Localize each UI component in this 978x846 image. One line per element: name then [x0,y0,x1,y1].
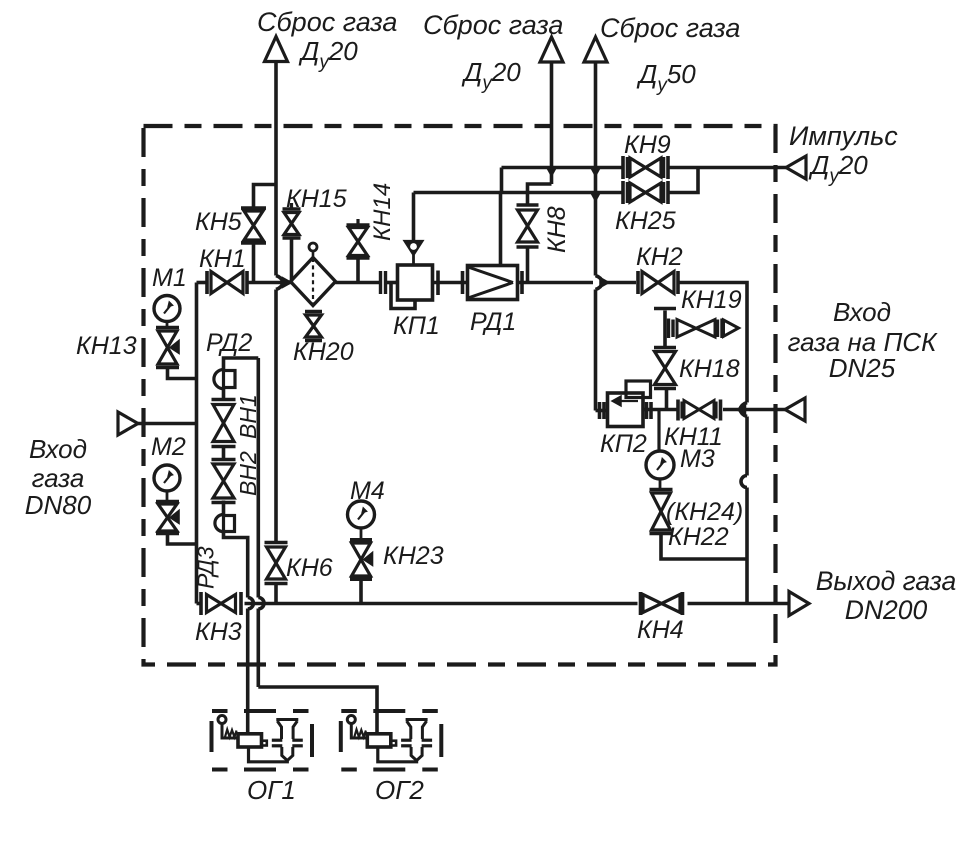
flow arrow riser 3 at impulse line [591,167,601,176]
wire: КН15 stem to filter inlet [290,239,294,282]
burner unit ОГ2 internals [347,711,432,762]
hop on right column [741,476,747,488]
svg-text:КН25: КН25 [615,207,676,235]
valve М2 gauge cock [156,502,179,534]
label КН9 [624,131,671,159]
label КН1 [199,245,246,273]
valve КН2 [638,271,678,294]
label ВН2 (rotated) [235,451,261,496]
wire: ВН2-РД3 stem [222,501,226,516]
gauge М4 [348,501,375,539]
svg-text:КН1: КН1 [199,245,246,273]
svg-text:Выход газа: Выход газа [816,566,957,596]
gas inlet port DN80 [118,412,138,435]
valve КН15 [283,203,301,238]
label КН18 [679,355,740,383]
flow arrow at right column junction [737,403,748,417]
svg-text:DN200: DN200 [845,595,928,625]
wire: left riser x=196.5 [197,283,202,604]
wire: РД3 outlet to ОГ1 column [224,532,248,598]
label Сброс газа Ду50 [600,13,740,96]
wire: КН6 bottom stem [274,584,278,604]
wire: discharge riser 2 (x=551.5) with jog to КН8 stem [528,63,552,193]
svg-text:М4: М4 [350,477,385,505]
svg-text:DN80: DN80 [25,490,92,520]
svg-text:КН13: КН13 [76,332,137,360]
label Вход газа DN80 [25,434,92,520]
discharge port 2 (Сброс газа Ду20 middle) [540,37,563,62]
label КН11 [664,423,723,451]
svg-text:РД2: РД2 [206,329,252,357]
svg-text:Сброс газа: Сброс газа [600,13,740,43]
wire: discharge riser 1 (x=276) [276,62,283,543]
svg-text:КП1: КП1 [393,312,440,340]
pilot regulator РД3 (head) [215,515,235,532]
svg-text:ОГ2: ОГ2 [375,775,424,805]
svg-text:КН15: КН15 [286,185,347,213]
filter Ф1 (diamond with dashed axis and cap) [291,243,336,309]
valve КН9 [623,156,668,179]
flow arrow riser 2 into impulse line [547,167,557,176]
label КП1 [393,312,440,340]
svg-text:КН6: КН6 [286,554,333,582]
wire: main pipe КН1-filter [249,281,291,285]
svg-text:КН18: КН18 [679,355,740,383]
label КН15 [286,185,347,213]
valve КН6 [265,543,288,584]
label Импульс Ду20 [789,121,898,187]
svg-text:М3: М3 [680,445,715,473]
svg-text:газа: газа [32,463,85,493]
svg-text:М1: М1 [152,264,187,292]
svg-text:КН2: КН2 [636,243,683,271]
svg-text:КН20: КН20 [293,338,354,366]
svg-text:КН4: КН4 [637,616,684,644]
svg-text:Вход: Вход [29,434,87,464]
svg-text:РД1: РД1 [470,308,516,336]
valve КН20 (filter drain) [305,312,322,341]
cabinet dashed border [144,126,776,665]
PSK inlet port [785,398,805,421]
label ОГ2 [375,775,424,805]
valve ВН2 [212,460,236,503]
pilot regulator РД2 (head) [214,370,235,389]
wire: КН2 out, corner down right column [680,283,748,604]
burner unit ОГ1 internals [218,711,303,762]
label Сброс газа (left) [257,7,397,73]
valve КН19 with vent [669,319,739,339]
svg-text:КН14: КН14 [369,183,396,241]
wire: pipe КП1-РД1 with flanges [433,271,468,296]
svg-text:РД3: РД3 [193,546,219,589]
valve КН23 (3-way gauge cock) [350,540,372,580]
valve КН13 (3-way gauge cock) [156,328,179,368]
wire: КН23 stem to output pipe [359,581,363,604]
wire: main pipe left segment [197,281,207,285]
valve КН25 [623,181,668,204]
svg-text:Импульс: Импульс [789,121,898,151]
burner unit ОГ2 dashed box [341,711,442,770]
label Вход газа на ПСК DN25 [788,297,939,383]
svg-text:DN25: DN25 [829,353,896,383]
label М2 [151,433,186,461]
КП2 port flanges [600,402,652,419]
gas outlet port DN200 [789,592,809,616]
svg-text:КН3: КН3 [195,618,242,646]
label КН2 [636,243,683,271]
label КН14 (rotated) [369,183,396,241]
svg-text:КН9: КН9 [624,131,671,159]
valve КН8 [517,205,539,247]
wire: КН22 loop to right column [661,535,747,559]
label КН23 [383,542,444,570]
wire: main pipe to КН2 [602,281,636,285]
discharge port 1 (Сброс газа Ду20 left) [265,37,288,62]
flow arrow riser 3 at sensor line [591,192,601,201]
valve ВН1 [212,400,236,447]
label КН19 [681,286,742,314]
label ВН1 (rotated) [235,394,261,439]
wire: discharge riser 3 (x=595.5) down to КП2 [596,63,609,411]
label РД2 [206,329,252,357]
valve КН18 [654,348,676,389]
wire: М2 branch to riser [168,535,197,544]
svg-text:КН5: КН5 [195,208,242,236]
hop of ОГ2 column over output pipe [258,358,377,711]
burner unit ОГ1 dashed box [212,711,313,770]
label КН25 [615,207,676,235]
svg-text:КН23: КН23 [383,542,444,570]
valve КН3 [201,592,241,615]
svg-text:Сброс газа: Сброс газа [257,7,397,37]
label РД1 [470,308,516,336]
label ОГ1 [247,775,296,805]
wire: ПСК line y=409.5 [643,408,785,412]
svg-text:КН22: КН22 [668,523,729,551]
svg-text:КН8: КН8 [543,206,571,253]
impulse port (Импульс Ду20) [786,156,806,179]
wire: inlet line [138,422,197,426]
hop of ОГ1 column over output pipe [248,598,254,712]
shutoff valve КП2 (square with arrow) [608,381,651,427]
wire: КН25 bypass link up to impulse line [670,168,699,193]
valve КН22 [650,490,673,534]
wire: КН5 stems [254,185,277,283]
label Сброс газа (middle) [423,10,563,94]
wire: КН18 stem with vent cap [654,309,676,410]
wire: РД2 top link [224,358,259,369]
wire: sensor line y=192.5 (КП1/РД1 impulse) [414,191,622,195]
gauge М2 [154,465,180,501]
label М3 [680,445,715,473]
wire: КН8 stems [526,193,530,283]
svg-text:М2: М2 [151,433,186,461]
wire: РД2-ВН1 stem [222,389,226,400]
regulator РД1 [468,266,518,300]
label КН22 [668,523,729,551]
gauge М1 [154,296,180,328]
valve КН5 [241,208,266,243]
label КН6 [286,554,333,582]
junction fork at x=595.5 on main pipe [596,276,610,290]
svg-text:КН19: КН19 [681,286,742,314]
label КН13 [76,332,137,360]
label КН5 [195,208,242,236]
flow arrow into main pipe at riser 1 [283,278,292,288]
label М1 [152,264,187,292]
svg-text:Сброс газа: Сброс газа [423,10,563,40]
wire: output pipe y=603.5 [245,602,790,606]
svg-text:Вход: Вход [833,297,891,327]
svg-text:ОГ1: ОГ1 [247,775,296,805]
label Выход газа DN200 [816,566,957,625]
label РД3 (rotated) [193,546,219,589]
label КН4 [637,616,684,644]
valve КН14 [347,219,370,258]
wire: РД1 sensing drop [499,193,503,266]
label КН3 [195,618,242,646]
label (КН24) [666,498,743,526]
svg-text:(КН24): (КН24) [666,498,743,526]
valve КН1 [207,271,247,294]
wire: КН14 stem [356,260,360,283]
wire: ВН1-ВН2 stem [222,447,226,462]
wire: main pipe filter-КП1 [336,271,398,294]
wire: impulse line y=167.5 [502,168,787,193]
svg-text:КП2: КП2 [600,430,647,458]
shutoff valve КП1 (square body) [391,193,433,309]
label М4 [350,477,385,505]
label КП2 [600,430,647,458]
valve КН11 [678,400,721,421]
wire: М1 branch to riser [168,368,197,379]
gauge М3 [646,410,674,490]
label КН8 (rotated) [543,206,571,253]
valve КН4 [641,592,683,615]
wire: pipe РД1 to КН2 junction [518,271,594,294]
discharge port 3 (Сброс газа Ду50 right) [584,37,607,62]
label КН20 [293,338,354,366]
